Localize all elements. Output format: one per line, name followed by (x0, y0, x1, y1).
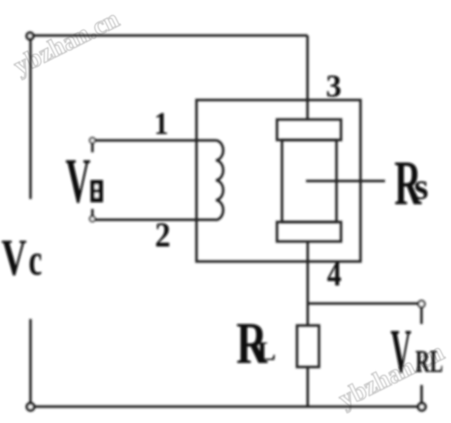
svg-text:V: V (391, 318, 412, 386)
svg-text:s: s (414, 167, 428, 208)
svg-text:V: V (66, 146, 91, 217)
svg-text:V: V (1, 229, 26, 286)
svg-text:4: 4 (327, 254, 341, 293)
svg-text:3: 3 (326, 68, 342, 103)
svg-text:L: L (257, 337, 276, 366)
svg-text:RL: RL (415, 343, 443, 379)
svg-text:2: 2 (155, 217, 171, 255)
svg-text:1: 1 (154, 106, 168, 142)
svg-text:c: c (29, 236, 42, 285)
